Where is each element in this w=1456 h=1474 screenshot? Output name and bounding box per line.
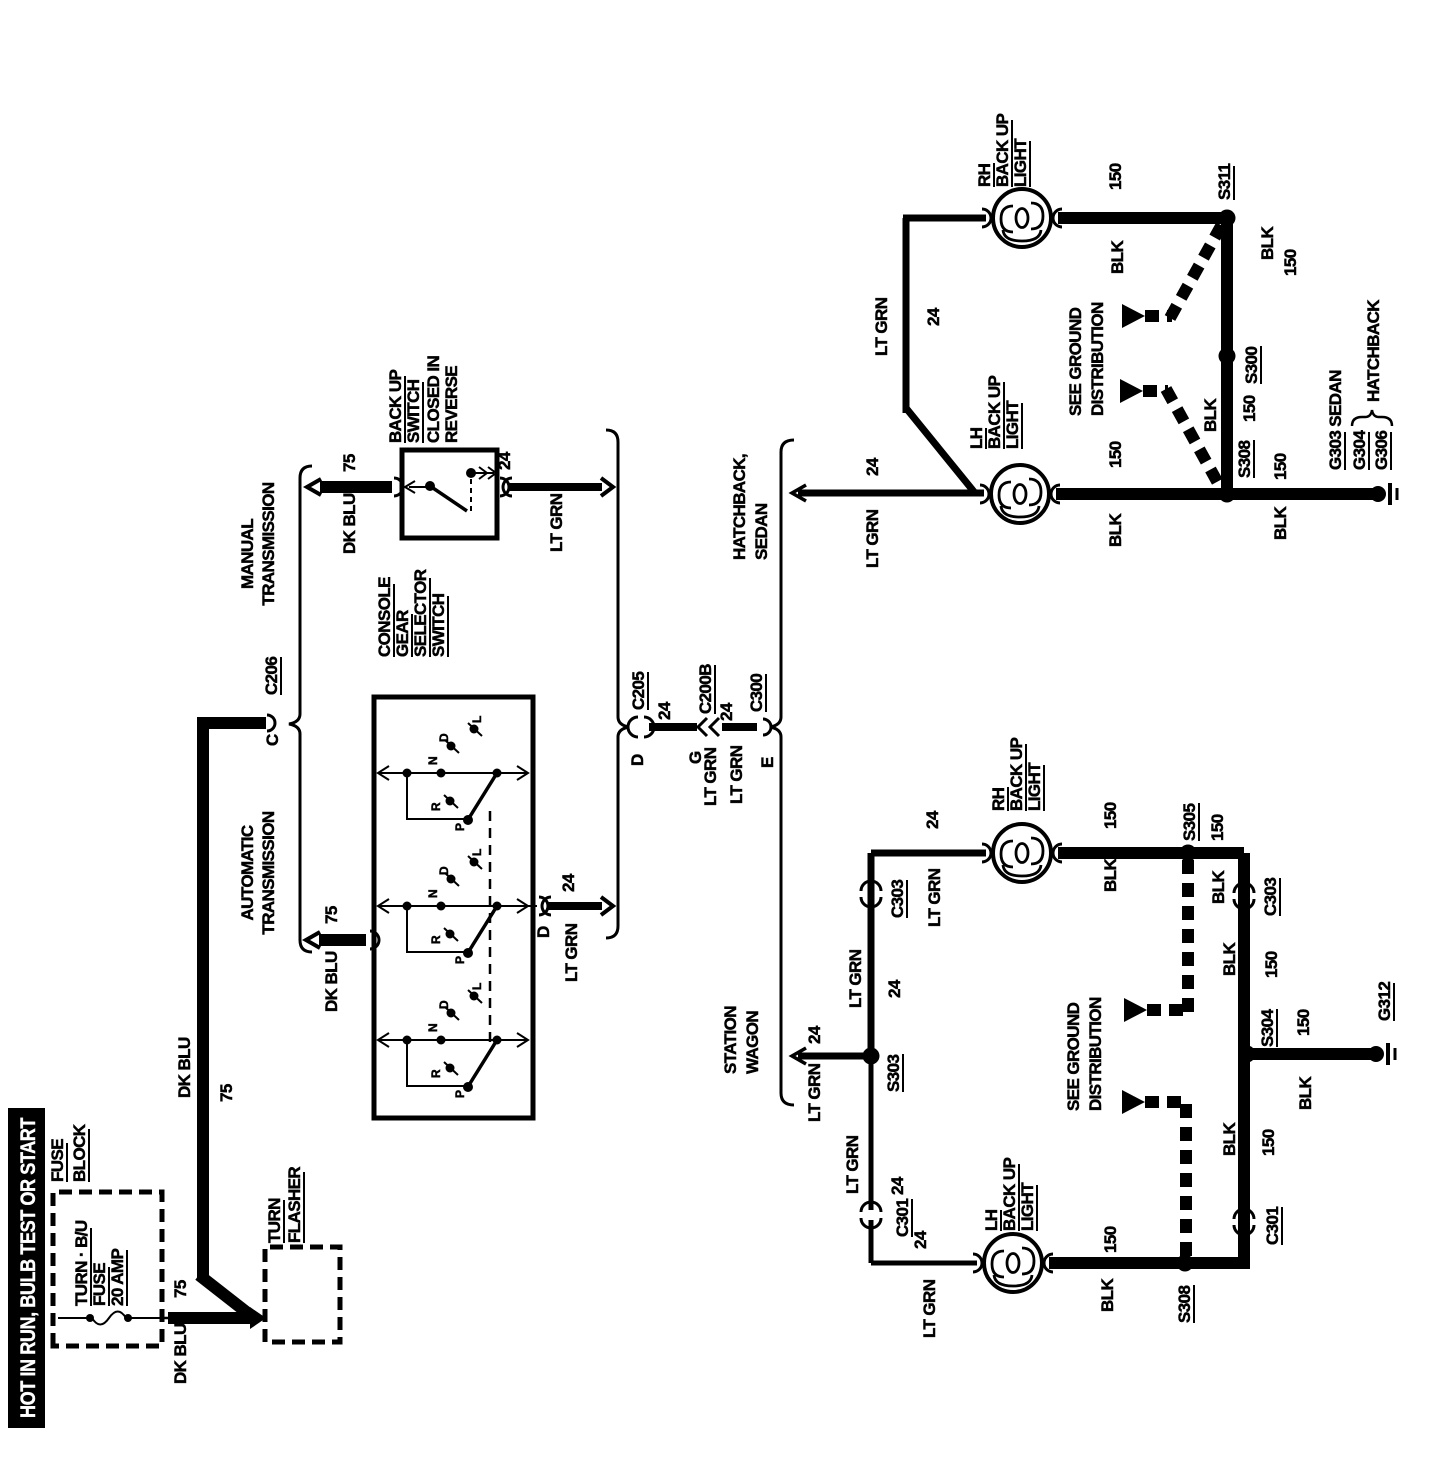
- svg-text:24: 24: [911, 1230, 930, 1249]
- back up switch contacts: [405, 467, 496, 511]
- connector C303 ground side: [1234, 878, 1280, 916]
- svg-text:150: 150: [1281, 249, 1300, 276]
- wire BLK 150 labels S308 to S300: [1201, 395, 1259, 432]
- wire LT GRN 24 station wagon feed: [792, 1025, 866, 1122]
- selector contact group P R N D L left: [378, 983, 528, 1098]
- svg-text:DK BLU: DK BLU: [171, 1323, 190, 1384]
- svg-text:LT GRN: LT GRN: [872, 297, 891, 356]
- svg-text:24: 24: [888, 1176, 907, 1195]
- svg-text:24: 24: [655, 701, 674, 720]
- connector C300 pin E: [747, 674, 777, 768]
- mechanical link dashed line: [489, 804, 492, 1042]
- wire BLK 150 LH bulb to S308: [1056, 441, 1222, 547]
- svg-text:BLK: BLK: [1220, 942, 1239, 976]
- svg-text:MANUAL: MANUAL: [238, 519, 257, 589]
- svg-text:LT GRN: LT GRN: [863, 509, 882, 568]
- svg-text:LT GRN: LT GRN: [846, 949, 865, 1008]
- connector C301 feed side: [861, 1199, 912, 1237]
- splice S311: [1215, 163, 1236, 226]
- svg-text:LH: LH: [967, 427, 986, 449]
- label see ground distribution (station wagon): [1064, 997, 1105, 1111]
- splice S300: [1219, 346, 1262, 384]
- header bar HOT IN RUN, BULB TEST OR START: [8, 1108, 45, 1428]
- svg-text:BLK: BLK: [1098, 1278, 1117, 1312]
- wire LT GRN 24 S303 to LH wagon bulb: [843, 1056, 977, 1338]
- svg-text:D: D: [628, 754, 647, 766]
- svg-text:BACK UP: BACK UP: [993, 113, 1012, 187]
- svg-text:DISTRIBUTION: DISTRIBUTION: [1088, 302, 1107, 416]
- svg-text:FUSE: FUSE: [90, 1263, 109, 1306]
- svg-text:SWITCH: SWITCH: [404, 379, 423, 443]
- svg-text:LT GRN: LT GRN: [920, 1279, 939, 1338]
- svg-text:LT GRN: LT GRN: [727, 745, 746, 804]
- svg-text:FLASHER: FLASHER: [285, 1167, 304, 1243]
- wire LT GRN 24 C205 to C200B: [649, 701, 720, 806]
- wire BLK 150 RH bulb to S311: [1058, 163, 1222, 274]
- svg-text:24: 24: [924, 307, 943, 326]
- svg-text:FUSE: FUSE: [48, 1139, 67, 1182]
- svg-text:DK BLU: DK BLU: [175, 1037, 194, 1098]
- svg-text:LT GRN: LT GRN: [547, 493, 566, 552]
- fuse TURN-B/U 20 AMP: [58, 1220, 162, 1324]
- brace transmission split: [289, 466, 312, 952]
- svg-text:75: 75: [322, 906, 341, 924]
- svg-text:BLK: BLK: [1101, 858, 1120, 892]
- svg-text:150: 150: [1262, 951, 1281, 978]
- wire BLK 150 LH wagon bulb to S308: [1049, 1226, 1181, 1312]
- svg-text:C300: C300: [747, 674, 766, 712]
- svg-text:S311: S311: [1215, 163, 1234, 200]
- back up switch labels: [386, 356, 461, 443]
- wire LT GRN 24 to RH back up light: [872, 218, 986, 493]
- svg-text:LT GRN: LT GRN: [805, 1063, 824, 1122]
- svg-text:TURN · B/U: TURN · B/U: [72, 1220, 91, 1306]
- svg-text:BACK UP: BACK UP: [386, 369, 405, 443]
- svg-text:150: 150: [1259, 1129, 1278, 1156]
- selector contact group P R N D L right: [378, 716, 528, 831]
- svg-text:DISTRIBUTION: DISTRIBUTION: [1086, 997, 1105, 1111]
- console gear selector switch box: [374, 697, 533, 1118]
- svg-text:LIGHT: LIGHT: [1011, 138, 1030, 187]
- wire BLK 150 S308 to ground: [1231, 453, 1374, 540]
- svg-text:BLK: BLK: [1220, 1122, 1239, 1156]
- splice S304: [1239, 1009, 1278, 1063]
- svg-text:24: 24: [559, 873, 578, 892]
- svg-text:LIGHT: LIGHT: [1025, 762, 1044, 811]
- svg-text:RH: RH: [975, 163, 994, 187]
- svg-text:150: 150: [1106, 163, 1125, 190]
- svg-text:75: 75: [171, 1280, 190, 1298]
- svg-text:C301: C301: [893, 1199, 912, 1237]
- fuse block dashed box: [53, 1192, 162, 1346]
- connector C205 pin D: [628, 672, 654, 766]
- svg-text:SELECTOR: SELECTOR: [411, 569, 430, 657]
- wire BLK 150 S304 to ground G312: [1251, 1009, 1372, 1110]
- label see ground distribution (hatchback sedan): [1066, 302, 1107, 416]
- splice S308 wagon: [1175, 1255, 1194, 1324]
- svg-text:G304: G304: [1350, 430, 1369, 470]
- ground G303 G304 G306: [1326, 299, 1397, 505]
- svg-text:HOT IN RUN, BULB TEST OR START: HOT IN RUN, BULB TEST OR START: [17, 1117, 40, 1418]
- svg-text:DK BLU: DK BLU: [322, 951, 341, 1012]
- svg-text:S308: S308: [1175, 1286, 1194, 1323]
- RH back up light (station wagon): [982, 737, 1062, 882]
- svg-text:S300: S300: [1242, 347, 1261, 384]
- svg-text:C303: C303: [888, 880, 907, 918]
- svg-text:S305: S305: [1180, 804, 1199, 841]
- splice S305: [1180, 803, 1229, 904]
- svg-text:C: C: [263, 734, 282, 746]
- ground distribution arrow from S305: [1124, 860, 1188, 1022]
- svg-text:24: 24: [863, 457, 882, 476]
- wire diagonal branch to main bus: [199, 1275, 254, 1318]
- console output wire LT GRN 24 pin D: [528, 873, 613, 982]
- ground G312: [1368, 982, 1395, 1065]
- svg-text:C303: C303: [1261, 878, 1280, 916]
- wire LT GRN 24 hatchback feed: [792, 457, 984, 568]
- back up switch output wire LT GRN 24: [495, 451, 613, 552]
- svg-text:G303 SEDAN: G303 SEDAN: [1326, 370, 1345, 470]
- svg-text:75: 75: [340, 454, 359, 472]
- svg-text:24: 24: [717, 702, 736, 721]
- svg-text:DK BLU: DK BLU: [340, 493, 359, 554]
- connector C200B pin G: [686, 664, 719, 764]
- turn flasher dashed box: [265, 1247, 340, 1342]
- turn flasher label: [265, 1167, 304, 1243]
- svg-text:150: 150: [1208, 814, 1227, 841]
- splice S308: [1219, 440, 1255, 503]
- back up switch U box: [402, 450, 497, 538]
- svg-text:TRANSMISSION: TRANSMISSION: [259, 482, 278, 605]
- svg-text:LIGHT: LIGHT: [1003, 400, 1022, 449]
- LH back up light (station wagon): [973, 1157, 1053, 1292]
- ground distribution arrow from wagon S308: [1122, 1090, 1186, 1256]
- svg-text:TURN: TURN: [265, 1198, 284, 1243]
- svg-text:G: G: [686, 751, 705, 764]
- svg-text:150: 150: [1271, 453, 1290, 480]
- wire BLK 150 wagon ground bus: [1188, 853, 1281, 1269]
- svg-text:150: 150: [1240, 395, 1259, 422]
- wire LT GRN 24 C200B to C300: [717, 702, 757, 804]
- svg-text:C206: C206: [262, 657, 281, 695]
- wire DK BLU 75 fuse to turn flasher: [162, 1280, 266, 1384]
- svg-text:LIGHT: LIGHT: [1018, 1182, 1037, 1231]
- svg-text:SEE GROUND: SEE GROUND: [1066, 307, 1085, 416]
- svg-text:WAGON: WAGON: [743, 1011, 762, 1074]
- label station wagon: [721, 1006, 762, 1074]
- fuse block label: [48, 1123, 89, 1182]
- svg-text:24: 24: [923, 810, 942, 829]
- brace body styles split: [770, 440, 794, 1105]
- connector C303 feed side: [861, 880, 907, 918]
- selector contact group P R N D L middle: [378, 849, 528, 964]
- svg-text:24: 24: [495, 451, 514, 470]
- svg-text:S308: S308: [1235, 441, 1254, 478]
- svg-text:BACK UP: BACK UP: [985, 375, 1004, 449]
- svg-text:SEE GROUND: SEE GROUND: [1064, 1002, 1083, 1111]
- ground distribution arrow from S311: [1122, 219, 1225, 328]
- svg-text:C205: C205: [629, 672, 648, 710]
- svg-text:BLK: BLK: [1209, 870, 1228, 904]
- svg-text:CLOSED IN: CLOSED IN: [424, 356, 443, 443]
- svg-text:20 AMP: 20 AMP: [108, 1249, 127, 1306]
- svg-text:S303: S303: [884, 1055, 903, 1092]
- svg-text:S304: S304: [1258, 1009, 1277, 1047]
- svg-text:G306: G306: [1372, 431, 1391, 470]
- label hatchback sedan: [730, 454, 771, 560]
- svg-text:BLK: BLK: [1201, 398, 1220, 432]
- svg-text:LT GRN: LT GRN: [562, 923, 581, 982]
- wire BLK ground bus S308 S300 S311: [1227, 218, 1300, 494]
- svg-text:SWITCH: SWITCH: [429, 593, 448, 657]
- wire DK BLU 75 manual branch: [307, 454, 403, 554]
- svg-text:C200B: C200B: [696, 664, 715, 714]
- svg-text:E: E: [758, 757, 777, 768]
- svg-text:HATCHBACK,: HATCHBACK,: [730, 454, 749, 560]
- svg-text:BLK: BLK: [1271, 506, 1290, 540]
- svg-text:BLK: BLK: [1108, 240, 1127, 274]
- RH back up light (hatchback sedan): [975, 113, 1062, 247]
- wire BLK 150 RH wagon bulb to S305: [1058, 802, 1182, 892]
- label automatic transmission: [238, 811, 278, 934]
- svg-text:75: 75: [217, 1084, 236, 1102]
- svg-text:C301: C301: [1263, 1207, 1282, 1245]
- svg-text:LT GRN: LT GRN: [925, 868, 944, 927]
- svg-text:REVERSE: REVERSE: [442, 366, 461, 443]
- svg-text:LT GRN: LT GRN: [843, 1135, 862, 1194]
- connector C206 pin C: [262, 657, 282, 746]
- svg-text:BLOCK: BLOCK: [70, 1123, 89, 1182]
- splice S303: [863, 1048, 904, 1093]
- svg-text:150: 150: [1106, 441, 1125, 468]
- label manual transmission: [238, 482, 278, 605]
- connector C301 ground side: [1234, 1207, 1282, 1245]
- brace transmission outputs join: [606, 430, 629, 938]
- svg-text:150: 150: [1294, 1009, 1313, 1036]
- console gear selector switch labels: [375, 569, 448, 657]
- svg-text:TRANSMISSION: TRANSMISSION: [259, 811, 278, 934]
- svg-text:G312: G312: [1375, 982, 1394, 1021]
- svg-text:RH: RH: [989, 787, 1008, 811]
- svg-text:CONSOLE: CONSOLE: [375, 577, 394, 657]
- wire LT GRN 24 S303 to RH wagon bulb: [846, 810, 986, 1056]
- LH back up light (hatchback sedan): [967, 375, 1060, 523]
- svg-text:D: D: [534, 926, 553, 938]
- wire DK BLU 75 main bus: [175, 723, 266, 1281]
- svg-text:24: 24: [885, 979, 904, 998]
- svg-text:BACK UP: BACK UP: [1007, 737, 1026, 811]
- svg-text:BLK: BLK: [1296, 1076, 1315, 1110]
- svg-text:BACK UP: BACK UP: [1000, 1157, 1019, 1231]
- svg-text:STATION: STATION: [721, 1006, 740, 1074]
- svg-text:LH: LH: [982, 1209, 1001, 1231]
- ground distribution arrow from S308: [1120, 379, 1224, 494]
- svg-text:150: 150: [1101, 802, 1120, 829]
- wire DK BLU 75 automatic branch: [306, 906, 379, 1012]
- svg-text:AUTOMATIC: AUTOMATIC: [238, 825, 257, 920]
- svg-text:HATCHBACK: HATCHBACK: [1364, 299, 1383, 402]
- svg-text:BLK: BLK: [1106, 513, 1125, 547]
- svg-text:150: 150: [1101, 1226, 1120, 1253]
- svg-text:BLK: BLK: [1258, 226, 1277, 260]
- svg-text:SEDAN: SEDAN: [752, 503, 771, 560]
- svg-text:GEAR: GEAR: [393, 610, 412, 657]
- svg-text:24: 24: [805, 1025, 824, 1044]
